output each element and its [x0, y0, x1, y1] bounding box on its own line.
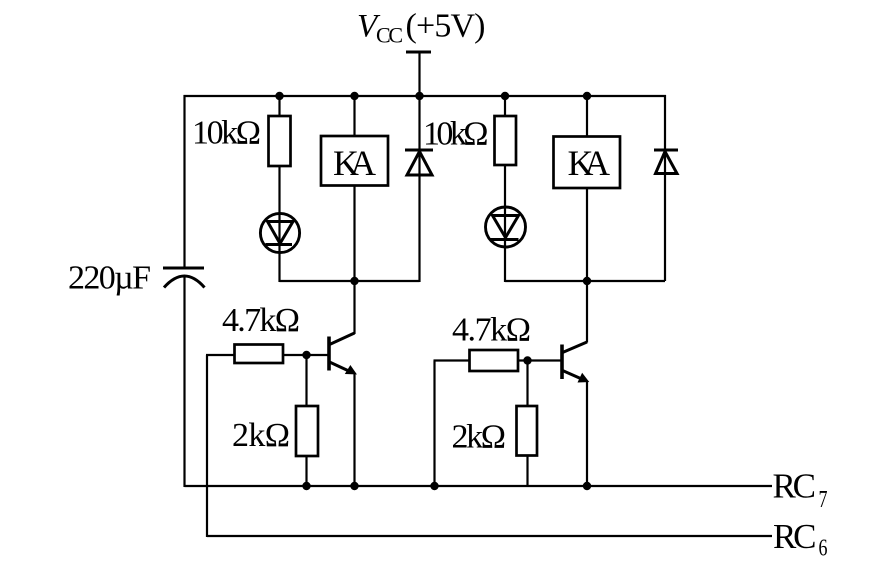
- diode D1 flyback: [405, 150, 433, 175]
- label RC7: [773, 467, 828, 513]
- svg-text:10kΩ: 10kΩ: [423, 116, 489, 153]
- wire R4 left to corner: [434, 359, 470, 361]
- svg-text:CC: CC: [376, 23, 403, 48]
- resistor R1 10k: [269, 116, 291, 166]
- wire rail to KA2: [586, 96, 588, 137]
- node dot base divider Q1: [302, 351, 310, 359]
- wire D1 branch: [418, 96, 420, 282]
- wire rail to R2: [504, 96, 506, 117]
- wire emitter Q1 down: [353, 373, 355, 487]
- svg-text:4.7kΩ: 4.7kΩ: [452, 312, 531, 349]
- relay coil KA1: [321, 136, 388, 186]
- diode D2 flyback: [654, 150, 678, 174]
- wire emitter Q2 down: [586, 381, 588, 488]
- wire base node to R6: [526, 361, 528, 407]
- wire RC6 line: [207, 535, 772, 537]
- wire top rail: [184, 95, 667, 97]
- relay coil KA2: [554, 137, 621, 189]
- LED1 indicator diode: [260, 213, 299, 252]
- node dot rail Vcc D1: [415, 92, 423, 100]
- svg-text:(+5V): (+5V): [406, 8, 486, 45]
- resistor R4 4.7k: [470, 350, 519, 371]
- Vcc supply label: [357, 8, 486, 48]
- wire R1 to LED1 to corner: [278, 166, 280, 282]
- wire base Q2: [518, 359, 561, 361]
- wire base node to R5: [305, 355, 307, 406]
- wire D2 branch right edge: [664, 95, 666, 281]
- node dot KA2 bottom: [583, 277, 591, 285]
- wire collector Q1: [353, 281, 355, 334]
- svg-text:10kΩ: 10kΩ: [192, 115, 261, 152]
- wire KA1 to bottom wire: [353, 186, 355, 283]
- wire R4 corner down to RC7: [433, 361, 435, 488]
- resistor R3 4.7k: [235, 345, 284, 364]
- node dot rail R1: [275, 92, 283, 100]
- svg-text:220µF: 220µF: [68, 260, 151, 297]
- transistor Q1: [329, 333, 355, 374]
- node dot emitter Q2 on RC7: [583, 482, 591, 490]
- wire R5 to RC7: [305, 456, 307, 487]
- wire bottom of branch 2: [505, 280, 665, 282]
- resistor R2 10k: [495, 116, 517, 165]
- node dot KA1 bottom: [350, 277, 358, 285]
- wire left branch vertical lower: [183, 277, 185, 487]
- wire KA2 to bottom wire: [586, 188, 588, 282]
- Vcc power bar terminal: [406, 52, 431, 96]
- wire rail to KA1: [353, 96, 355, 136]
- resistor R6 2k: [517, 406, 538, 456]
- wire left corner down to RC6: [206, 355, 208, 537]
- svg-text:KA: KA: [333, 143, 376, 183]
- svg-text:4.7kΩ: 4.7kΩ: [222, 302, 300, 339]
- svg-text:RC: RC: [773, 517, 817, 556]
- node dot emitter Q1 on RC7: [350, 482, 358, 490]
- wire R6 to RC7: [526, 456, 528, 487]
- node dot rail R2: [501, 92, 509, 100]
- svg-text:KA: KA: [568, 143, 611, 183]
- wire rail to R1: [278, 96, 280, 117]
- svg-text:2kΩ: 2kΩ: [452, 419, 507, 456]
- node dot R5 on RC7: [302, 482, 310, 490]
- node dot R4 on RC7: [430, 482, 438, 490]
- node dot rail KA1: [350, 92, 358, 100]
- resistor R5 2k: [296, 406, 318, 456]
- wire base Q1: [283, 354, 328, 356]
- LED2 indicator diode: [486, 207, 526, 247]
- wire collector Q2: [586, 281, 588, 343]
- wire R2 to LED2 to corner: [504, 165, 506, 282]
- node dot rail KA2: [583, 92, 591, 100]
- node dot base divider Q2: [523, 356, 531, 364]
- transistor Q2: [562, 342, 588, 382]
- wire bottom of branch 1: [280, 280, 420, 282]
- svg-text:6: 6: [819, 536, 828, 562]
- svg-text:2kΩ: 2kΩ: [232, 417, 290, 454]
- wire R3 left to corner: [206, 354, 235, 356]
- label RC6: [773, 517, 828, 562]
- svg-text:RC: RC: [773, 467, 817, 506]
- svg-text:7: 7: [819, 487, 828, 513]
- capacitor C1 220uF: [163, 268, 205, 288]
- wire RC7 line: [185, 485, 773, 487]
- wire left branch vertical upper: [183, 95, 185, 268]
